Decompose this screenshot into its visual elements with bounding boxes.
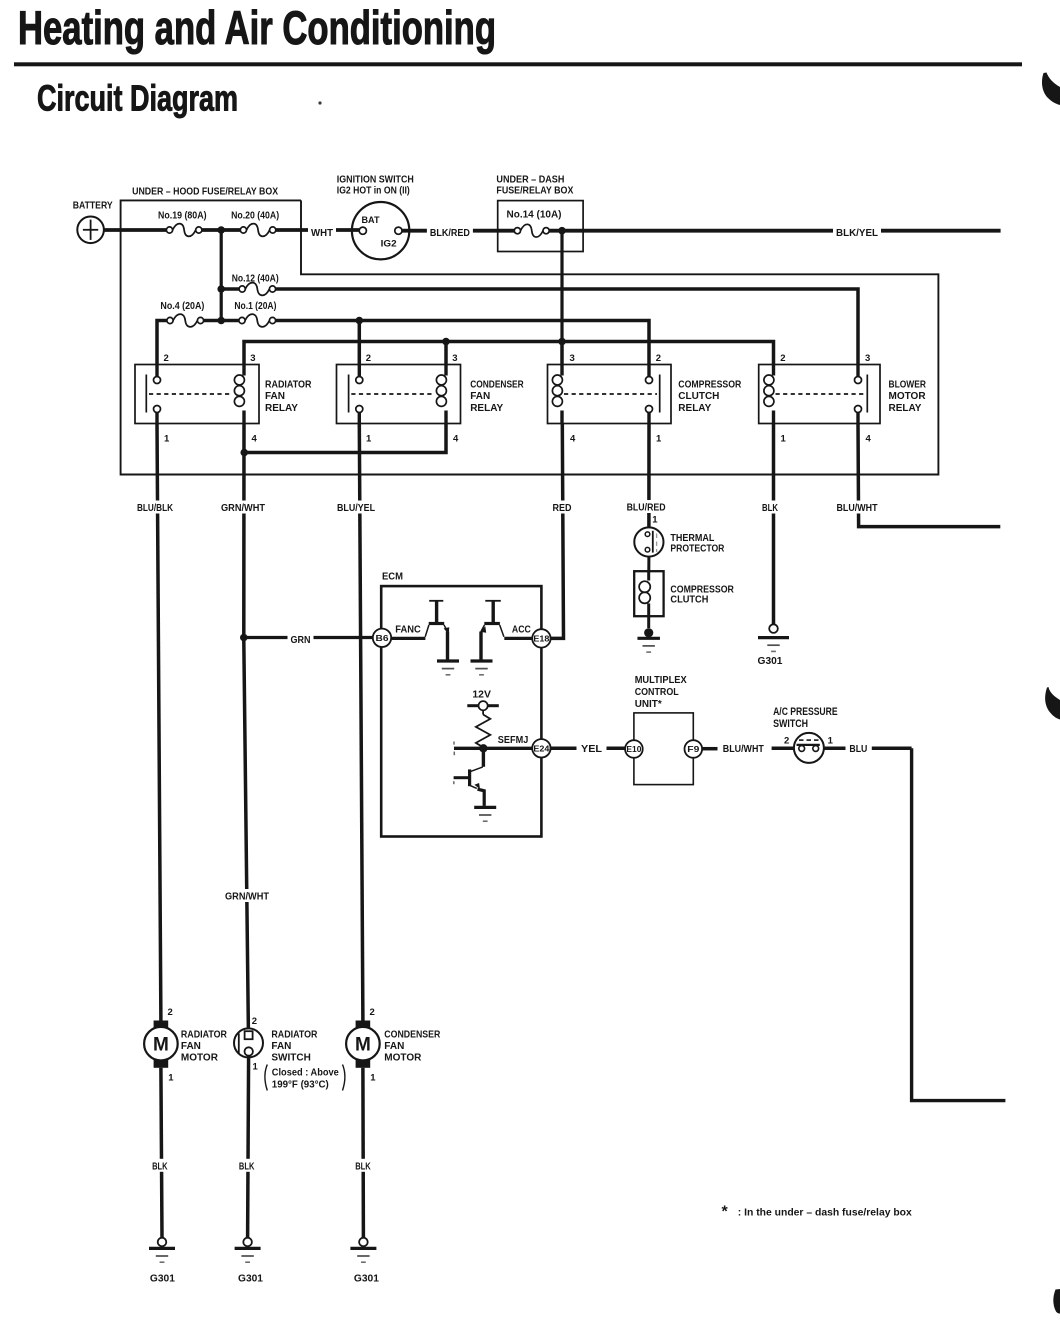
svg-text:1: 1 xyxy=(828,736,834,747)
svg-text:FAN: FAN xyxy=(271,1041,291,1052)
svg-text:No.19 (80A): No.19 (80A) xyxy=(158,211,207,222)
svg-text:*: * xyxy=(722,1204,729,1221)
svg-text:2: 2 xyxy=(784,736,789,747)
svg-text:CLUTCH: CLUTCH xyxy=(678,391,719,402)
svg-text:4: 4 xyxy=(453,434,459,445)
svg-text:RELAY: RELAY xyxy=(678,403,711,414)
svg-text:COMPRESSOR: COMPRESSOR xyxy=(678,379,742,390)
svg-text:3: 3 xyxy=(570,353,575,364)
svg-text:GRN/WHT: GRN/WHT xyxy=(225,891,270,903)
svg-text:IG2: IG2 xyxy=(381,238,397,249)
svg-text:3: 3 xyxy=(250,353,255,364)
svg-text:MULTIPLEX: MULTIPLEX xyxy=(635,675,687,686)
svg-text:BLU: BLU xyxy=(849,743,867,755)
svg-text:M: M xyxy=(153,1034,169,1055)
svg-text:RELAY: RELAY xyxy=(470,403,503,414)
svg-text:E18: E18 xyxy=(533,634,549,644)
svg-text:G301: G301 xyxy=(150,1274,175,1285)
svg-text:SWITCH: SWITCH xyxy=(271,1053,310,1064)
svg-text:CLUTCH: CLUTCH xyxy=(670,595,708,606)
svg-text:E10: E10 xyxy=(626,745,642,754)
svg-text:COMPRESSOR: COMPRESSOR xyxy=(670,584,734,595)
svg-text:Closed : Above: Closed : Above xyxy=(272,1068,339,1079)
svg-text:BLU/WHT: BLU/WHT xyxy=(837,502,878,514)
svg-text:BLK: BLK xyxy=(355,1160,371,1172)
svg-text:4: 4 xyxy=(866,434,872,445)
svg-text:No.1 (20A): No.1 (20A) xyxy=(234,301,276,312)
svg-text:BAT: BAT xyxy=(362,215,380,226)
svg-text:M: M xyxy=(355,1034,371,1055)
svg-text:F9: F9 xyxy=(687,745,700,754)
svg-text:RADIATOR: RADIATOR xyxy=(265,379,312,390)
svg-text:A/C PRESSURE: A/C PRESSURE xyxy=(773,706,838,718)
svg-text:RED: RED xyxy=(553,502,572,514)
svg-text:G301: G301 xyxy=(354,1274,379,1285)
svg-text:E24: E24 xyxy=(533,744,549,754)
svg-text:FAN: FAN xyxy=(384,1041,404,1052)
svg-text:Circuit Diagram: Circuit Diagram xyxy=(37,78,238,119)
svg-text:RADIATOR: RADIATOR xyxy=(271,1030,318,1041)
svg-text:4: 4 xyxy=(570,434,576,445)
svg-text:FAN: FAN xyxy=(470,391,490,402)
svg-text:PROTECTOR: PROTECTOR xyxy=(670,544,725,555)
svg-text:FAN: FAN xyxy=(181,1041,201,1052)
svg-text:G301: G301 xyxy=(758,656,783,667)
svg-text:SWITCH: SWITCH xyxy=(773,718,808,730)
svg-text:No.14 (10A): No.14 (10A) xyxy=(507,209,562,220)
svg-text:BLU/BLK: BLU/BLK xyxy=(137,502,173,514)
svg-text:MOTOR: MOTOR xyxy=(889,391,927,402)
svg-text:YEL: YEL xyxy=(581,743,603,755)
svg-text:GRN: GRN xyxy=(291,634,311,646)
svg-text:No.4 (20A): No.4 (20A) xyxy=(160,301,204,312)
svg-text:BLK/YEL: BLK/YEL xyxy=(836,227,879,239)
svg-text:199°F (93°C): 199°F (93°C) xyxy=(272,1080,329,1091)
svg-text:2: 2 xyxy=(370,1007,375,1018)
svg-text:FAN: FAN xyxy=(265,391,285,402)
svg-text:BLK: BLK xyxy=(152,1160,168,1172)
svg-text:1: 1 xyxy=(781,434,787,445)
svg-text:RELAY: RELAY xyxy=(889,403,922,414)
svg-text:BLU/WHT: BLU/WHT xyxy=(723,743,764,755)
svg-text:MOTOR: MOTOR xyxy=(181,1053,219,1064)
svg-text:GRN/WHT: GRN/WHT xyxy=(221,502,266,514)
svg-text:RELAY: RELAY xyxy=(265,403,298,414)
svg-text:B6: B6 xyxy=(376,633,389,643)
svg-text:UNDER – HOOD FUSE/RELAY BOX: UNDER – HOOD FUSE/RELAY BOX xyxy=(132,186,278,198)
svg-text:4: 4 xyxy=(252,434,258,445)
svg-text:No.12 (40A): No.12 (40A) xyxy=(232,273,279,284)
svg-text:CONDENSER: CONDENSER xyxy=(470,379,524,390)
svg-text:: In the under – dash fuse/rel: : In the under – dash fuse/relay box xyxy=(738,1207,912,1219)
svg-text:1: 1 xyxy=(164,434,170,445)
svg-text:BLU/YEL: BLU/YEL xyxy=(337,502,375,514)
svg-text:2: 2 xyxy=(164,353,169,364)
svg-text:CONDENSER: CONDENSER xyxy=(384,1030,441,1041)
svg-text:IG2 HOT in ON (II): IG2 HOT in ON (II) xyxy=(337,184,410,196)
svg-text:1: 1 xyxy=(656,434,662,445)
svg-text:ECM: ECM xyxy=(382,571,403,582)
svg-text:WHT: WHT xyxy=(311,227,334,239)
svg-text:1: 1 xyxy=(168,1073,174,1084)
svg-text:1: 1 xyxy=(253,1062,259,1073)
svg-text:1: 1 xyxy=(366,434,372,445)
svg-text:ACC: ACC xyxy=(512,624,531,635)
svg-text:UNIT*: UNIT* xyxy=(635,699,662,710)
svg-text:BATTERY: BATTERY xyxy=(73,200,113,212)
svg-text:CONTROL: CONTROL xyxy=(635,687,679,698)
svg-text:BLK: BLK xyxy=(762,502,778,514)
svg-text:THERMAL: THERMAL xyxy=(670,533,714,544)
svg-text:1: 1 xyxy=(370,1073,376,1084)
svg-text:FANC: FANC xyxy=(395,624,421,635)
svg-text:2: 2 xyxy=(366,353,371,364)
svg-text:SEFMJ: SEFMJ xyxy=(498,735,529,746)
svg-text:FUSE/RELAY BOX: FUSE/RELAY BOX xyxy=(496,184,573,196)
svg-text:1: 1 xyxy=(652,514,658,525)
svg-text:BLOWER: BLOWER xyxy=(889,379,927,390)
svg-text:12V: 12V xyxy=(472,689,491,700)
svg-text:3: 3 xyxy=(452,353,457,364)
svg-text:2: 2 xyxy=(656,353,661,364)
svg-text:2: 2 xyxy=(780,353,785,364)
svg-text:BLU/RED: BLU/RED xyxy=(627,502,666,514)
svg-text:BLK/RED: BLK/RED xyxy=(430,227,470,239)
svg-text:Heating and Air Conditioning: Heating and Air Conditioning xyxy=(18,1,496,54)
svg-text:No.20 (40A): No.20 (40A) xyxy=(231,211,279,222)
svg-text:MOTOR: MOTOR xyxy=(384,1053,422,1064)
svg-text:G301: G301 xyxy=(238,1274,263,1285)
svg-text:2: 2 xyxy=(168,1007,173,1018)
svg-text:3: 3 xyxy=(865,353,870,364)
svg-text:RADIATOR: RADIATOR xyxy=(181,1030,228,1041)
svg-text:BLK: BLK xyxy=(239,1160,255,1172)
svg-text:2: 2 xyxy=(252,1016,257,1027)
